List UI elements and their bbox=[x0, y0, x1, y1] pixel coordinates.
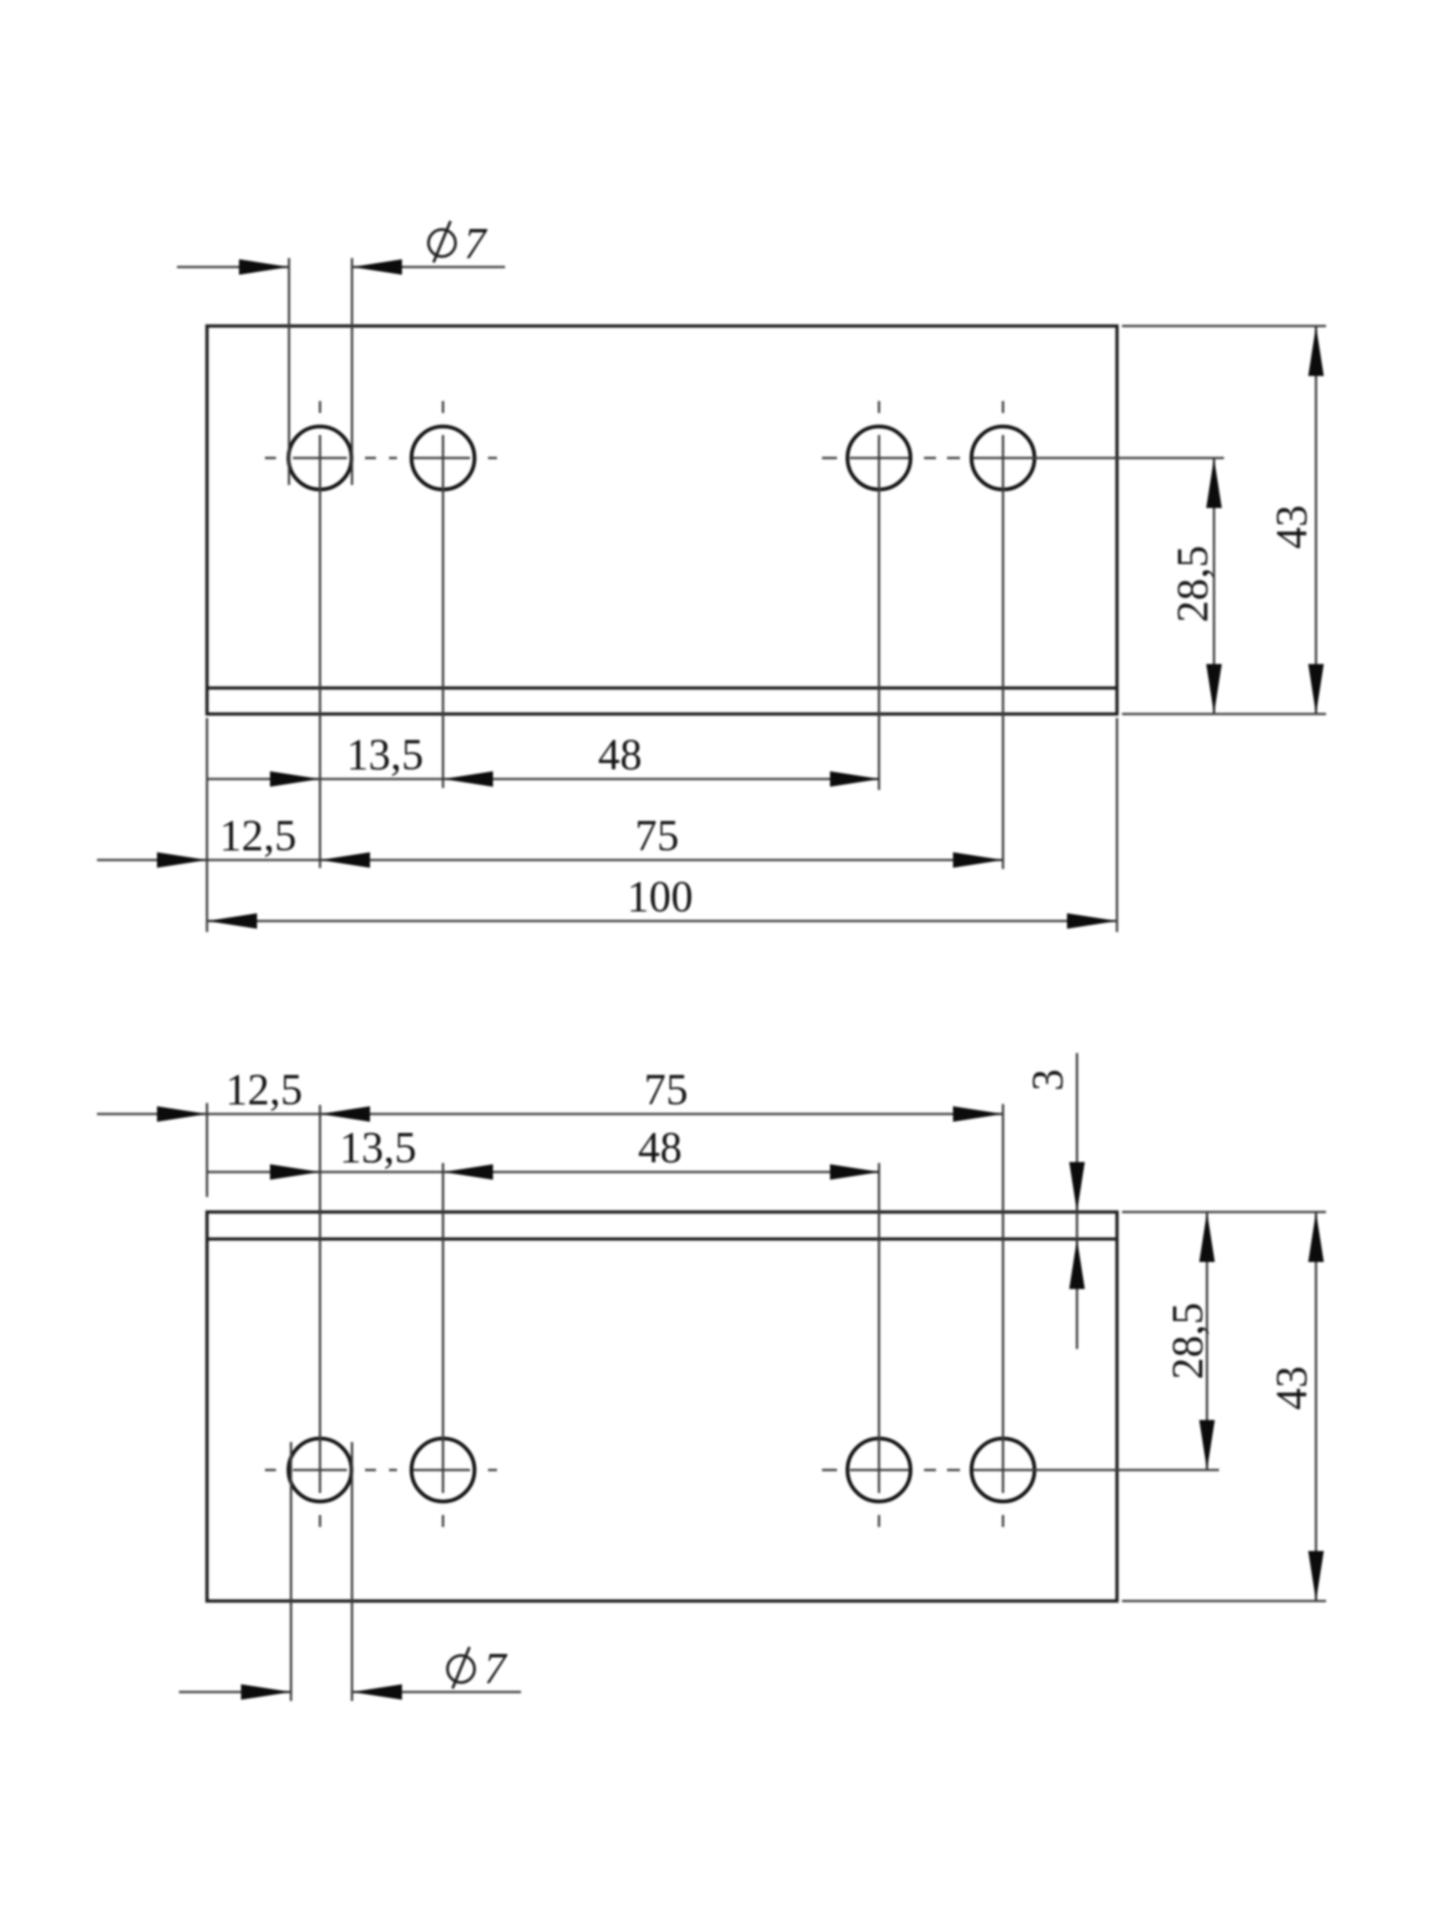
top view dia7 extension line left bbox=[288, 258, 290, 485]
svg-text:48: 48 bbox=[598, 730, 642, 779]
svg-text:48: 48 bbox=[638, 1123, 682, 1172]
bottom view 3 upper arrow bbox=[1069, 1162, 1085, 1212]
bottom view center line through holes 3-4 and 28,5 extension bbox=[822, 1469, 1219, 1471]
bottom view plate outline 100x43 bbox=[207, 1212, 1117, 1601]
svg-text:13,5: 13,5 bbox=[347, 730, 424, 779]
bottom view dia7 arrow right bbox=[352, 1684, 402, 1700]
bottom view hole 2 diameter 7 bbox=[412, 1439, 475, 1502]
top view 43 bottom arrow bbox=[1308, 664, 1324, 714]
bottom view 75 right arrow bbox=[953, 1106, 1003, 1122]
top view 75 right arrow bbox=[953, 852, 1003, 868]
bottom view hole 1 diameter 7 bbox=[289, 1439, 352, 1502]
bottom view 43 top arrow bbox=[1308, 1212, 1324, 1262]
bottom view dimension line 43 bbox=[1315, 1212, 1317, 1601]
bottom view center tick below hole x=1003 bbox=[1002, 1515, 1004, 1527]
bottom view 3 lower arrow bbox=[1069, 1239, 1085, 1289]
top view center tick above hole x=1003 bbox=[1002, 401, 1004, 413]
top view left edge extension line bbox=[206, 718, 208, 932]
top view dia symbol circle bbox=[429, 230, 456, 257]
bottom view dia symbol slash bbox=[453, 1647, 470, 1689]
top view dimension line 28,5 bbox=[1213, 458, 1215, 714]
bottom view center tick below hole x=320 bbox=[319, 1515, 321, 1527]
svg-text:12,5: 12,5 bbox=[220, 811, 297, 860]
top view plate outline 100x43 bbox=[207, 326, 1117, 714]
bottom view 48 right arrow bbox=[830, 1164, 880, 1180]
top view hole 1 center extension line bbox=[319, 435, 321, 868]
bottom view 12,5/75 shared arrow bbox=[320, 1106, 370, 1122]
top view dimension line 43 bbox=[1315, 326, 1317, 714]
top view center tick above hole x=320 bbox=[319, 401, 321, 413]
bottom view 12,5 left arrow bbox=[157, 1106, 207, 1122]
bottom view 28,5 top arrow bbox=[1199, 1212, 1215, 1262]
svg-text:43: 43 bbox=[1267, 505, 1316, 549]
bottom view top edge extension line bbox=[1122, 1211, 1326, 1213]
top view top edge extension line bbox=[1122, 325, 1326, 327]
svg-text:28,5: 28,5 bbox=[1168, 546, 1217, 623]
top view dia7 arrow left bbox=[239, 259, 289, 275]
svg-text:7: 7 bbox=[464, 219, 488, 268]
bottom view 13,5 left arrow bbox=[270, 1164, 320, 1180]
bottom view dia7 extension line right bbox=[351, 1442, 353, 1701]
top view dia7 dimension line right part bbox=[352, 266, 505, 268]
svg-text:13,5: 13,5 bbox=[340, 1123, 417, 1172]
top view 28,5 top arrow bbox=[1206, 458, 1222, 508]
bottom view left edge extension line bbox=[206, 1103, 208, 1197]
bottom view 28,5 bottom arrow bbox=[1199, 1420, 1215, 1470]
bottom view dia7 dimension line left part bbox=[179, 1691, 291, 1693]
bottom view dimension line 12,5 / 75 bbox=[97, 1113, 1003, 1115]
bottom view center tick below hole x=443 bbox=[442, 1515, 444, 1527]
bottom view hole 2 center extension line bbox=[442, 1163, 444, 1493]
top view flange inner line (3mm offset) bbox=[207, 686, 1117, 689]
top view hole 4 center extension line bbox=[1002, 435, 1004, 869]
top view 28,5 bottom arrow bbox=[1206, 664, 1222, 714]
svg-text:28,5: 28,5 bbox=[1163, 1303, 1212, 1380]
top view hole 3 diameter 7 bbox=[848, 427, 911, 490]
bottom view bottom edge extension line bbox=[1122, 1600, 1326, 1602]
bottom view center line through holes 1-2 bbox=[265, 1469, 497, 1471]
bottom view 43 bottom arrow bbox=[1308, 1551, 1324, 1601]
top view hole 3 center extension line bbox=[878, 435, 880, 790]
top view 43 top arrow bbox=[1308, 326, 1324, 376]
svg-text:12,5: 12,5 bbox=[226, 1065, 303, 1114]
bottom view dia7 extension line left bbox=[290, 1442, 292, 1701]
top view hole 4 diameter 7 bbox=[972, 427, 1035, 490]
top view dimension line 100 bbox=[207, 920, 1117, 922]
top view hole 1 diameter 7 bbox=[289, 427, 352, 490]
bottom view 13,5/48 shared arrow bbox=[443, 1164, 493, 1180]
bottom view center tick below hole x=879 bbox=[878, 1515, 880, 1527]
top view bottom edge extension line bbox=[1122, 713, 1326, 715]
svg-text:43: 43 bbox=[1267, 1366, 1316, 1410]
top view hole 2 diameter 7 bbox=[412, 427, 475, 490]
top view 100 right arrow bbox=[1067, 913, 1117, 929]
top view 12,5/75 shared arrow bbox=[320, 852, 370, 868]
top view dia7 extension line right bbox=[351, 258, 353, 485]
svg-text:100: 100 bbox=[627, 872, 693, 921]
bottom view hole 1 center extension line bbox=[319, 1105, 321, 1493]
top view center tick above hole x=879 bbox=[878, 401, 880, 413]
bottom view dia symbol circle bbox=[448, 1656, 475, 1683]
top view right edge extension line bbox=[1116, 718, 1118, 932]
top view dimension line 12,5 / 75 bbox=[97, 859, 1003, 861]
top view center line through holes 3-4 and 28,5 extension bbox=[822, 457, 1224, 459]
svg-text:75: 75 bbox=[644, 1065, 688, 1114]
bottom view hole 4 diameter 7 bbox=[972, 1439, 1035, 1502]
bottom view hole 3 center extension line bbox=[878, 1163, 880, 1493]
top view center tick above hole x=443 bbox=[442, 401, 444, 413]
top view 12,5 left arrow bbox=[157, 852, 207, 868]
bottom view hole 4 center extension line bbox=[1002, 1104, 1004, 1493]
top view 100 left arrow bbox=[207, 913, 257, 929]
top view 48 right arrow bbox=[830, 771, 880, 787]
top view dia7 dimension line left part bbox=[177, 266, 289, 268]
bottom view flange inner line (3mm offset) bbox=[207, 1237, 1117, 1240]
top view hole 2 center extension line bbox=[442, 435, 444, 788]
top view dia7 arrow right bbox=[352, 259, 402, 275]
svg-text:3: 3 bbox=[1023, 1069, 1072, 1091]
bottom view dimension line 3 bbox=[1076, 1053, 1078, 1349]
svg-text:75: 75 bbox=[635, 811, 679, 860]
top view 13,5/48 shared arrow bbox=[443, 771, 493, 787]
bottom view dia7 dimension line right part bbox=[352, 1691, 521, 1693]
top view dia symbol slash bbox=[434, 221, 451, 263]
top view dimension line 13,5 / 48 bbox=[207, 778, 880, 780]
svg-text:7: 7 bbox=[484, 1644, 508, 1693]
top view center line through holes 1-2 bbox=[265, 457, 497, 459]
bottom view dia7 arrow left bbox=[241, 1684, 291, 1700]
bottom view dimension line 28,5 bbox=[1206, 1212, 1208, 1470]
top view 13,5 left arrow bbox=[270, 771, 320, 787]
bottom view dimension line 13,5 / 48 bbox=[207, 1171, 880, 1173]
bottom view hole 3 diameter 7 bbox=[848, 1439, 911, 1502]
